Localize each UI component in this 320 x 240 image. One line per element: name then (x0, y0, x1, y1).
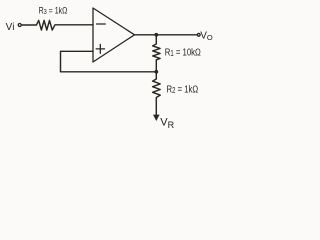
svg-text:VO: VO (200, 30, 213, 42)
svg-text:R3 = 1kΩ: R3 = 1kΩ (39, 4, 68, 16)
svg-text:R1 = 10kΩ: R1 = 10kΩ (165, 47, 201, 59)
svg-text:VR: VR (160, 116, 174, 130)
svg-text:Vi: Vi (6, 22, 15, 33)
svg-text:R2 = 1kΩ: R2 = 1kΩ (167, 83, 199, 95)
